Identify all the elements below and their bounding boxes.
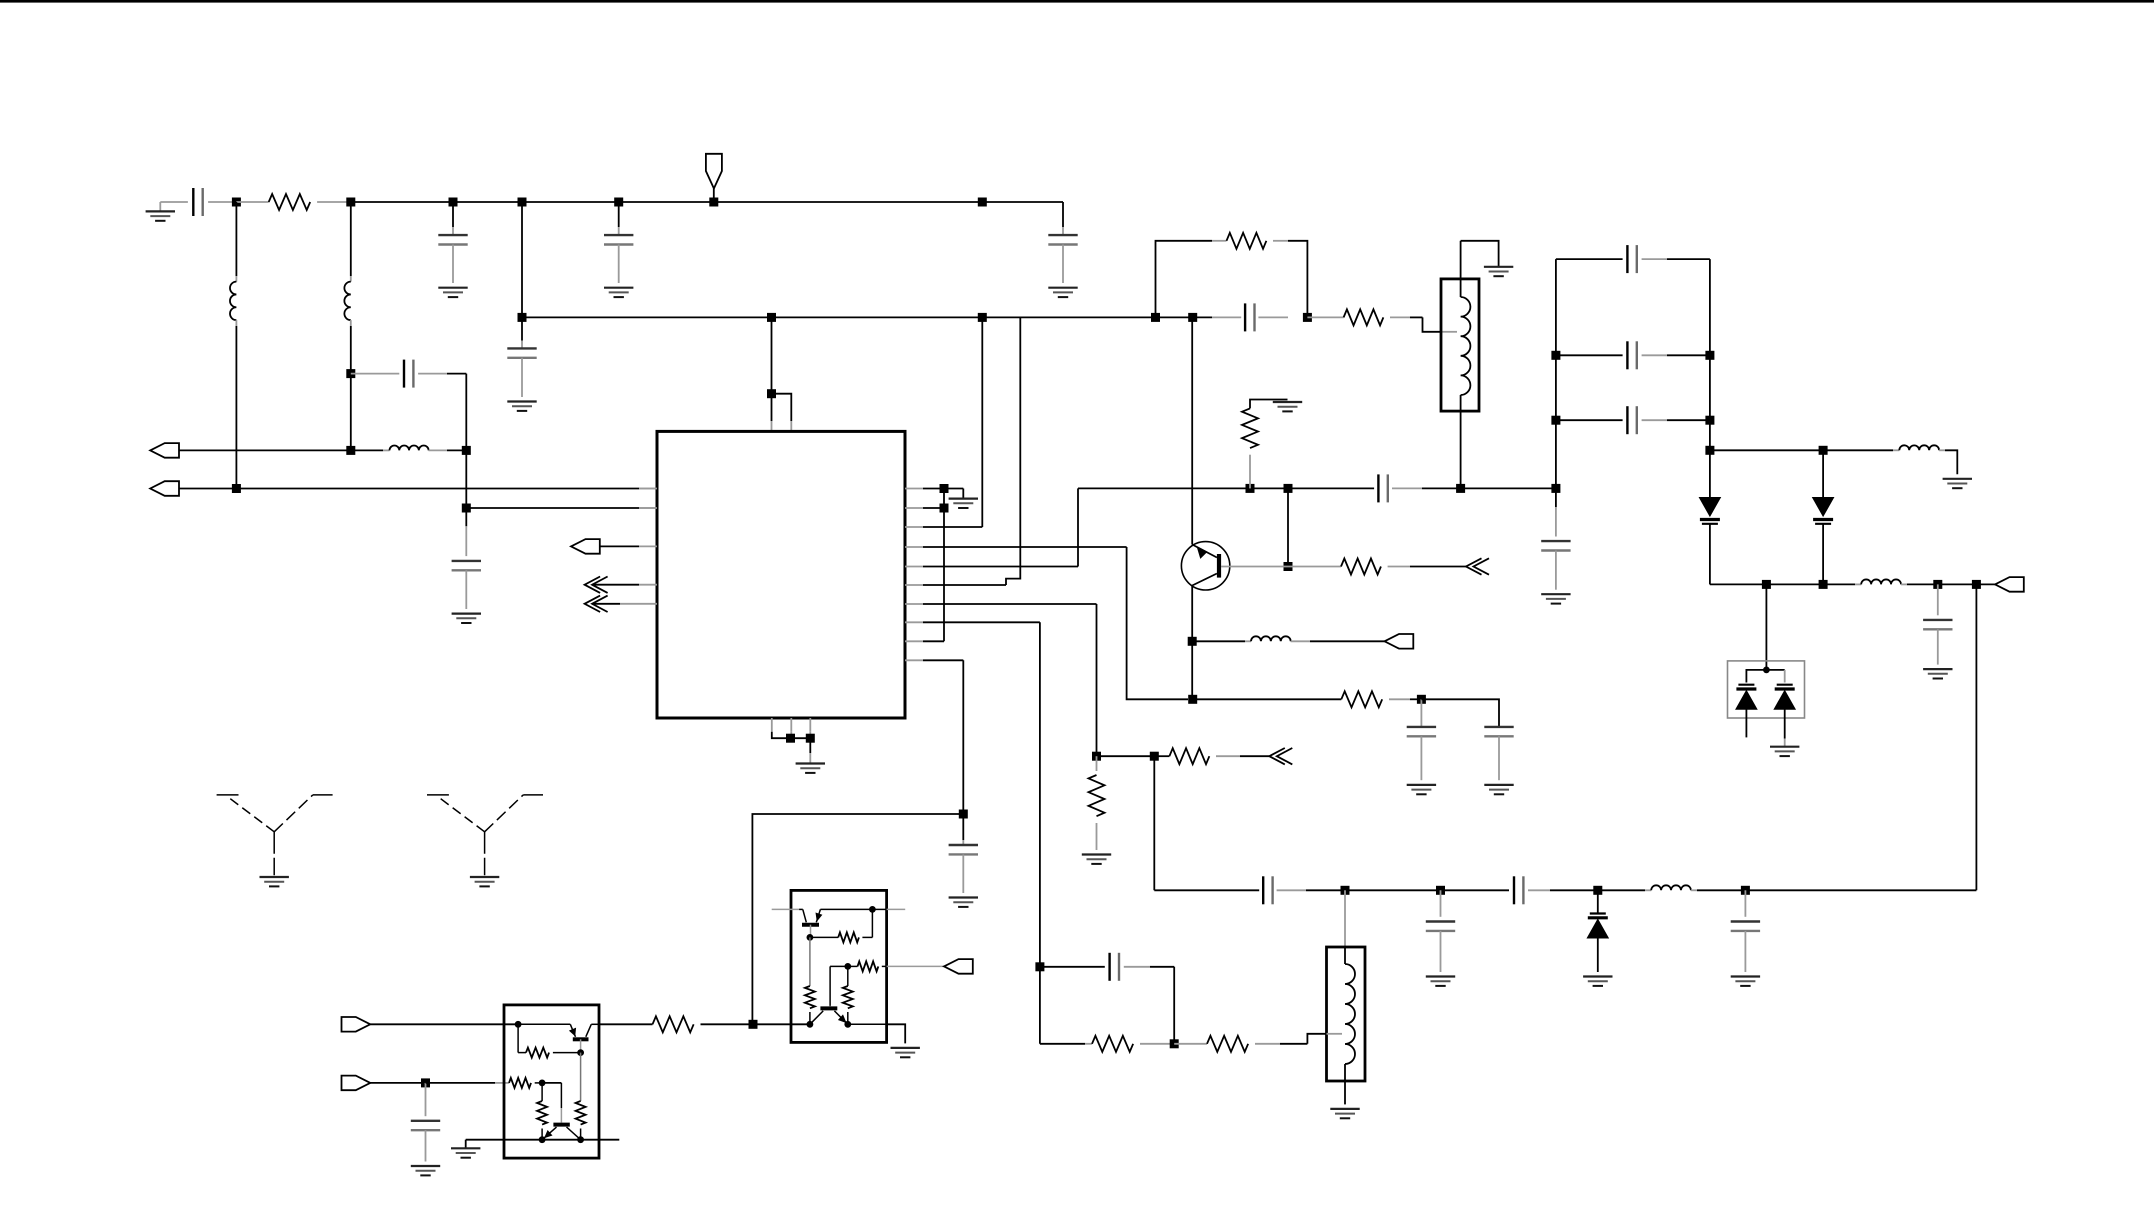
node J43 bbox=[1705, 446, 1714, 455]
wire bbox=[350, 320, 352, 326]
wire bbox=[521, 202, 523, 317]
inductor L3 bbox=[351, 449, 383, 451]
pin bbox=[771, 718, 773, 732]
wire bbox=[809, 937, 811, 986]
capacitor C15 bbox=[1440, 890, 1442, 917]
node J23 bbox=[940, 504, 949, 513]
capacitor C11 bbox=[1555, 488, 1557, 507]
wire bbox=[772, 394, 792, 421]
node J2 bbox=[346, 198, 355, 207]
offpage connector CH4 bbox=[1269, 748, 1285, 764]
node J4 bbox=[518, 198, 527, 207]
node J52 bbox=[1170, 1039, 1179, 1048]
wire bbox=[944, 488, 963, 490]
wire bbox=[1097, 755, 1155, 757]
wire bbox=[1344, 890, 1346, 947]
wire bbox=[580, 1129, 582, 1140]
node J45 bbox=[1819, 580, 1828, 589]
connector CONN4 bbox=[1385, 634, 1414, 649]
wire bbox=[466, 507, 639, 509]
node J34 bbox=[1150, 752, 1159, 761]
wire bbox=[179, 449, 351, 451]
resistor X1r3 bbox=[509, 1078, 531, 1088]
connector CONN6 bbox=[342, 1017, 371, 1032]
wire bbox=[943, 489, 945, 642]
pin bbox=[639, 603, 657, 605]
pin bbox=[905, 546, 923, 548]
wire bbox=[1598, 889, 1645, 891]
node J36 bbox=[1436, 886, 1445, 895]
pin bbox=[905, 507, 923, 509]
capacitor C10 bbox=[1377, 474, 1379, 502]
capacitor C14 bbox=[1262, 876, 1264, 904]
node J28 bbox=[1456, 484, 1465, 493]
ground G17 bbox=[1583, 975, 1612, 977]
pin bbox=[639, 545, 657, 547]
wire bbox=[466, 1139, 620, 1141]
wire rail1 bbox=[351, 201, 1063, 203]
capacitor C22 bbox=[425, 1083, 427, 1116]
ground G10 bbox=[949, 896, 978, 898]
ground G8 bbox=[796, 762, 825, 764]
connector CONN7 bbox=[342, 1076, 371, 1091]
wire bbox=[923, 640, 944, 642]
inductor L5 bbox=[1651, 885, 1691, 890]
wire base Q3 bbox=[542, 1082, 561, 1084]
capacitor C4 bbox=[1062, 227, 1064, 235]
wire bbox=[541, 1083, 543, 1101]
resistor R7h bbox=[1154, 755, 1169, 757]
wire R3 up bbox=[923, 526, 982, 528]
node J42 bbox=[1705, 416, 1714, 425]
wire bbox=[1040, 966, 1105, 968]
node J24 bbox=[959, 810, 968, 819]
wire ladder right bbox=[1709, 259, 1711, 497]
ground G22 bbox=[1770, 746, 1799, 748]
node J12 bbox=[232, 484, 241, 493]
wire bbox=[809, 1012, 811, 1024]
antenna Y1 bbox=[230, 799, 274, 832]
node X1a bbox=[515, 1021, 522, 1028]
wire bbox=[235, 202, 237, 276]
node J53 bbox=[1762, 580, 1771, 589]
transistor Q4 bbox=[772, 908, 799, 910]
wire bbox=[426, 1082, 496, 1084]
inductor L7 bbox=[1861, 579, 1901, 584]
wire tap bbox=[1307, 1034, 1326, 1044]
capacitor C6 bbox=[465, 508, 467, 526]
row450 wire bbox=[1710, 449, 1823, 451]
ground G5 bbox=[452, 612, 481, 614]
wire bbox=[923, 488, 944, 490]
capacitor C19 bbox=[1556, 354, 1623, 356]
ground G18 bbox=[1731, 975, 1760, 977]
ground G24 bbox=[465, 1140, 467, 1148]
node J51 bbox=[1035, 962, 1044, 971]
wire bbox=[871, 909, 873, 937]
ground G16 bbox=[1426, 975, 1455, 977]
wire bbox=[1423, 317, 1442, 331]
pin bbox=[790, 718, 792, 732]
node J47 bbox=[1972, 580, 1981, 589]
wire bbox=[1173, 967, 1175, 1044]
node J44 bbox=[1819, 446, 1828, 455]
pin bbox=[905, 526, 923, 528]
node J41 bbox=[1705, 351, 1714, 360]
node J48 bbox=[1763, 667, 1770, 674]
connector CONN1 bbox=[150, 443, 179, 458]
wire bbox=[1461, 487, 1556, 489]
node X2c bbox=[844, 963, 851, 970]
ground G13 bbox=[1407, 784, 1436, 786]
pin bbox=[639, 488, 657, 490]
node X1e bbox=[577, 1136, 584, 1143]
resistor R6h bbox=[1193, 698, 1342, 700]
resistor R11 bbox=[1174, 1043, 1207, 1045]
node J39 bbox=[1551, 351, 1560, 360]
wire R8 bbox=[923, 621, 1040, 623]
inductor L4 bbox=[1192, 640, 1245, 642]
capacitor C1 bbox=[160, 201, 188, 203]
capacitor C12 bbox=[1420, 699, 1422, 727]
wire R5 bbox=[923, 566, 1078, 568]
capacitor C3 bbox=[618, 202, 620, 227]
node J9 bbox=[346, 446, 355, 455]
ground G2 bbox=[438, 287, 467, 289]
transistor block X2 bbox=[791, 890, 887, 1042]
pin bbox=[639, 584, 657, 586]
node J35 bbox=[1341, 886, 1350, 895]
node J7 bbox=[978, 198, 987, 207]
pin bbox=[905, 640, 923, 642]
node J21 bbox=[806, 734, 815, 743]
ground G14 bbox=[1484, 784, 1513, 786]
wire bbox=[1191, 641, 1193, 699]
wire bbox=[753, 1023, 810, 1025]
wire bbox=[235, 320, 237, 326]
wire bbox=[981, 317, 983, 527]
wire rail2 bbox=[522, 316, 1212, 318]
IC U1 bbox=[657, 431, 905, 718]
pin bbox=[905, 566, 923, 568]
wire stub bbox=[872, 908, 886, 910]
ground G15 bbox=[1082, 853, 1111, 855]
ground G23 bbox=[411, 1165, 440, 1167]
offpage connector CH2 bbox=[585, 596, 601, 612]
wire bbox=[772, 732, 811, 739]
transistor Q2 bbox=[518, 1023, 570, 1025]
pin bbox=[905, 659, 923, 661]
capacitor C8 bbox=[1212, 316, 1241, 318]
pin bbox=[905, 603, 923, 605]
connector CONN2 bbox=[150, 481, 179, 496]
resistor X1r1 bbox=[526, 1048, 549, 1058]
resistor R4v bbox=[1249, 455, 1251, 489]
node J29 bbox=[1551, 484, 1560, 493]
wire bbox=[771, 317, 773, 393]
wire bbox=[809, 738, 811, 753]
capacitor C23 bbox=[1108, 953, 1110, 981]
connector CONN5 bbox=[1995, 577, 2024, 592]
capacitor C20 bbox=[1556, 419, 1623, 421]
node J3 bbox=[449, 198, 458, 207]
wire rail3b bbox=[1345, 889, 1509, 891]
wire bbox=[580, 1053, 582, 1101]
wire rail3 bbox=[1154, 889, 1259, 891]
wire bbox=[1765, 584, 1767, 670]
node J40 bbox=[1551, 416, 1560, 425]
wire rail2r bbox=[1709, 583, 1711, 585]
resistor R3 bbox=[1307, 316, 1343, 318]
wire bbox=[848, 1023, 887, 1025]
pin bbox=[905, 621, 923, 623]
ground G7 bbox=[1484, 266, 1513, 268]
capacitor C5 bbox=[351, 373, 400, 375]
wire ladder left bbox=[1555, 259, 1557, 488]
connector CONN8 bbox=[944, 959, 973, 974]
node J1 bbox=[232, 198, 241, 207]
node J25 bbox=[1246, 484, 1255, 493]
node J13 bbox=[518, 313, 527, 322]
ground G4 bbox=[1048, 287, 1077, 289]
varactor D2 bbox=[1822, 450, 1824, 497]
pin bbox=[639, 507, 657, 509]
resistor R10 bbox=[1092, 1036, 1133, 1052]
wire base Q4 bbox=[810, 925, 812, 938]
node J19 bbox=[1303, 313, 1312, 322]
transistor Q3 bbox=[553, 1123, 569, 1127]
resistor X1r4 bbox=[537, 1101, 547, 1125]
wire rail1 corner right bbox=[1062, 202, 1064, 227]
varactor D3 bbox=[1597, 890, 1599, 913]
node J30 bbox=[1188, 637, 1197, 646]
node J26 bbox=[1284, 484, 1293, 493]
capacitor C7 bbox=[521, 317, 523, 340]
transformer T1 bbox=[1441, 279, 1479, 411]
node X1d bbox=[539, 1136, 546, 1143]
ground G12 bbox=[1541, 593, 1570, 595]
wire bbox=[1153, 756, 1155, 890]
wire bbox=[752, 814, 963, 1024]
node J14 bbox=[767, 313, 776, 322]
capacitor C21 bbox=[1937, 584, 1939, 615]
wire R4 bbox=[923, 546, 1127, 548]
ground G6 bbox=[507, 400, 536, 402]
resistor R1 bbox=[236, 201, 268, 203]
wire bbox=[923, 507, 944, 509]
resistor R5h bbox=[1288, 566, 1341, 568]
node J20 bbox=[786, 734, 795, 743]
varactor D4 bbox=[1746, 670, 1766, 683]
node J49 bbox=[421, 1078, 430, 1087]
resistor R8v bbox=[1096, 756, 1098, 771]
wire bbox=[541, 1129, 543, 1140]
pin bbox=[905, 584, 923, 586]
node X1b bbox=[577, 1049, 584, 1056]
node X2b bbox=[807, 934, 814, 941]
wire R6 bbox=[923, 584, 1006, 586]
node J5 bbox=[614, 198, 623, 207]
capacitor C13 bbox=[1484, 726, 1513, 728]
node J31 bbox=[1188, 695, 1197, 704]
resistor R9 bbox=[599, 1023, 653, 1025]
node J37 bbox=[1593, 886, 1602, 895]
transformer T2 bbox=[1327, 947, 1366, 1081]
node X1c bbox=[539, 1080, 546, 1087]
pin bbox=[809, 718, 811, 732]
node J46 bbox=[1933, 580, 1942, 589]
wire bbox=[465, 374, 467, 451]
node X2d bbox=[807, 1021, 814, 1028]
capacitor C18 bbox=[1556, 258, 1623, 260]
capacitor C17 bbox=[1744, 890, 1746, 917]
node J8 bbox=[346, 369, 355, 378]
ground G11 bbox=[1273, 401, 1302, 403]
ground G1 bbox=[159, 202, 161, 211]
wire bbox=[465, 450, 467, 508]
wire bbox=[1460, 395, 1462, 488]
inductor L1 bbox=[230, 282, 236, 321]
node J22 bbox=[940, 484, 949, 493]
node X2e bbox=[844, 1021, 851, 1028]
node X2a bbox=[869, 906, 876, 913]
ground G19 bbox=[1330, 1108, 1359, 1110]
antenna Y2 bbox=[440, 799, 484, 832]
ground G25 bbox=[891, 1047, 920, 1049]
wire R7 bbox=[923, 603, 1097, 605]
node J6 bbox=[709, 198, 718, 207]
wire bbox=[1975, 584, 1977, 890]
resistor X1r2 bbox=[576, 1101, 586, 1125]
capacitor C16 bbox=[1513, 876, 1515, 904]
transistor block X1 bbox=[504, 1005, 599, 1158]
inductor L6 bbox=[1823, 449, 1893, 451]
pin bbox=[905, 488, 923, 490]
ground G21 bbox=[1923, 668, 1952, 670]
transistor Q5 bbox=[820, 1006, 837, 1010]
wire bbox=[370, 1023, 518, 1025]
wire bbox=[350, 202, 352, 276]
wire bbox=[517, 1024, 519, 1052]
node J32 bbox=[1417, 695, 1426, 704]
offpage connector CH3 bbox=[1466, 558, 1482, 574]
resistor X2r3 bbox=[848, 965, 858, 967]
capacitor C2 bbox=[452, 202, 454, 227]
node J15 bbox=[978, 313, 987, 322]
capacitor C9 bbox=[962, 840, 964, 845]
offpage connector CH1 bbox=[585, 577, 601, 593]
top border bar bbox=[0, 0, 2154, 3]
wire bbox=[1287, 488, 1289, 566]
ground G9 bbox=[949, 498, 978, 500]
varactor D5 bbox=[1766, 669, 1784, 671]
connector CONN3 bbox=[571, 539, 600, 554]
power pin flag P1 bbox=[706, 154, 722, 189]
node J17 bbox=[1188, 313, 1197, 322]
ground G20 bbox=[1943, 478, 1972, 480]
wire base Q2 bbox=[580, 1039, 582, 1052]
wire bbox=[370, 1082, 425, 1084]
node J27 bbox=[1284, 562, 1293, 571]
resistor X2r4 bbox=[847, 966, 849, 986]
resistor R2 bbox=[1156, 241, 1213, 318]
wire bbox=[1040, 1043, 1085, 1045]
wire bbox=[179, 488, 639, 490]
node J38 bbox=[1741, 886, 1750, 895]
node J11 bbox=[462, 504, 471, 513]
ground G3 bbox=[604, 287, 633, 289]
node J18 bbox=[767, 389, 776, 398]
transistor Q1 bbox=[1181, 542, 1229, 590]
wire R10 bbox=[923, 659, 963, 661]
node J33 bbox=[1092, 752, 1101, 761]
resistor X2r2 bbox=[805, 986, 815, 1008]
inductor L2 bbox=[344, 282, 350, 321]
node J10 bbox=[462, 446, 471, 455]
resistor X2r1 bbox=[810, 936, 838, 938]
varactor D1 bbox=[1699, 498, 1720, 517]
node J50 bbox=[749, 1020, 758, 1029]
wire base Q5 bbox=[830, 965, 848, 967]
wire bbox=[1421, 699, 1499, 727]
wire rail488 bbox=[1078, 487, 1374, 489]
node J16 bbox=[1151, 313, 1160, 322]
